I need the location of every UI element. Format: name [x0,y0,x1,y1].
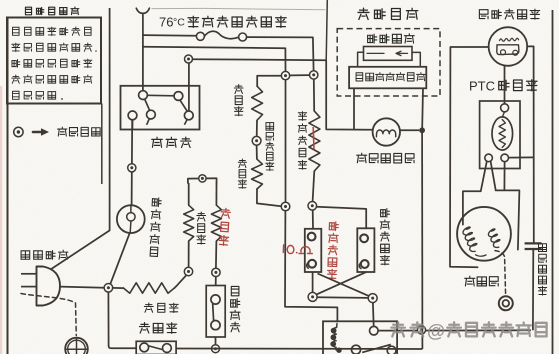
Y terminal at top [136,8,149,35]
electrode bracket right [412,52,420,66]
door switch wire from fuse [142,35,144,91]
wire right protector crossover to left node [316,272,366,294]
wire overload right lead [527,46,534,242]
wire left riser [109,8,111,231]
wire left protector crossover to right node [318,274,370,297]
overload body [497,45,519,56]
left protector contact upper [308,233,316,241]
legend panel right edge [101,104,103,185]
red handwriting 化霜保护器 left [327,222,338,279]
label 加热器 between branches [197,212,206,244]
door switch terminal TL [139,91,148,100]
label 加热器 upper left [234,85,243,116]
watermark 知乎 @英杰丹丹老师 [391,320,546,341]
wire main left drop to bus [108,292,136,348]
wire A fuse-branch to left heater chain [143,47,286,72]
wire plug to junction [60,287,104,288]
wire door switch right riser [188,63,190,111]
overload bimetal squiggle [500,38,519,41]
terminal node left parallel heater bottom [184,267,192,275]
door switch contact BR tail [184,120,187,125]
start relay box [323,321,397,354]
deodorizer dashed box [337,29,440,96]
power plug body [37,267,61,306]
label 运转电容器 [538,244,546,295]
door switch contact BR [184,111,193,120]
legend crimp terminal symbol [14,127,23,136]
heater resistor horizontal 加热器 [113,275,187,293]
wire PTC lambda left [463,161,487,224]
door switch bridge bar [147,94,174,97]
red handwriting 10 ohm [283,245,312,254]
label 过载保护器 [479,9,539,19]
ceramic electrode plate [364,47,413,61]
terminal node lamp wire [128,164,136,172]
thermostat terminal left [140,343,149,352]
earth terminal symbol [65,338,89,354]
terminal node on wire330 [417,326,425,334]
drain chain resistor upper 加热器 [252,86,263,136]
interior lamp 箱内照明灯 [117,205,145,233]
relay coil junction dot [336,348,341,353]
PTC terminal bottom-left [485,154,493,162]
label 切换开关 [230,286,240,331]
door switch terminal TR [174,92,183,101]
plug prong lower [21,286,37,288]
legend arrow [33,128,49,135]
label 加热器 lower left [238,159,246,188]
defrost heater resistor 除霜加热器 [309,79,320,201]
wire plug to left riser diagonal [52,231,110,269]
warning text line4 要拔下电源插头 [12,75,92,83]
right protector curl [359,262,361,268]
right defrost protector box [357,228,374,272]
warning text line1 由于在除臭系统 [13,27,92,36]
wire door switch to lamp [131,120,134,205]
thermostat lever [149,346,163,350]
parallel heater left branch [184,183,194,267]
compressor dashed tail [495,251,506,295]
label 加热器 under resistor [144,303,178,312]
fan motor 风扇电动机 [373,118,400,145]
changeover contact lower [211,321,220,330]
wire fuse feed horizontal [143,34,197,37]
bus bottom wire [176,348,422,351]
wire HV left lead [353,88,355,129]
door switch box 门开关 [121,86,200,130]
wire PTC to capacitor [509,156,534,158]
wire to left protector [312,210,314,229]
red pen stroke on resistor [312,127,315,150]
terminal node changeover top [212,268,220,276]
left protector contact lower [308,260,316,268]
terminal node mid-left [281,202,290,211]
changeover switch wire upper [215,277,217,286]
label 76°C defrost fuse 除霜保护熔断器 [159,15,286,30]
wire PTC shelf right [496,190,520,249]
terminal node defrost heater bottom [308,202,317,211]
wire straight branch x285 [285,80,287,203]
thermostat box 温控器 [136,341,176,354]
relay lever [362,345,391,353]
fuse element 76C defrost fuse [204,31,238,38]
compressor coil left [463,227,477,252]
wire top terminal to chainA corner [257,76,281,87]
terminal node drain-chain top [281,71,289,79]
relay contact right [387,346,396,354]
wire between relay nodes [317,296,368,299]
label 门开关 [152,137,191,147]
parallel heater right branch [211,183,221,268]
door switch lever left [145,99,150,110]
PTC terminal top [501,104,509,112]
door switch contact ML [147,110,156,119]
PTC terminal bottom-right [501,154,509,162]
electrode bracket left [358,52,364,67]
compressor coil right [488,229,500,248]
left edge pink strip [0,86,2,354]
wire right node into relay box [372,303,375,327]
junction terminal plug node [104,284,113,293]
wire overload left lead [450,47,489,267]
high voltage generator box [349,67,426,89]
compressor coil link [476,255,487,256]
compressor circle 压缩机 [457,207,511,261]
wire mid terminal to right protector [317,207,367,229]
changeover lever [212,304,215,321]
compressor service terminal [499,296,513,310]
changeover contact upper [211,295,220,304]
door switch terminal BL [128,111,137,120]
wire HV right lead [421,88,424,128]
wire3 door-switch to fan [193,59,373,130]
label 风扇电动机 [357,153,414,163]
wire left protector to relay terminal [312,272,314,292]
drain chain resistor lower 加热器 [252,145,282,206]
door switch lever right [180,100,187,111]
parallel heater top bar [188,178,217,183]
wire x285 down to relay feed [285,211,337,321]
label PTC起动器 [469,79,537,94]
wire fan to junction [400,129,419,131]
label 压缩机 [465,276,499,286]
PTC wire top [504,66,506,104]
terminal node relay left [308,292,317,301]
run capacitor bottom lead [532,249,534,330]
wire top border drop [326,0,327,60]
terminal node parallel heater top [199,175,206,182]
thermostat terminal right [163,344,172,353]
wire PTC lambda right [491,161,496,190]
legend label 压接端子 [58,127,101,136]
left border frame line [7,17,9,354]
label 排水加热器 [266,123,274,171]
plug prong upper [21,273,37,275]
warning text line5 防止触电 [13,91,63,100]
wire PTC right down [503,162,505,191]
warning note box [7,18,101,104]
changeover switch box 切换开关 [206,286,225,338]
door switch contact ML tail [147,119,150,125]
overload protector circle [489,27,528,66]
terminal node defrost-heater top [310,71,318,79]
label 温控器 [139,323,176,334]
wire fuse to right corner [247,37,314,71]
left protector curl [307,262,309,268]
plug earth dashed wire [21,294,76,336]
right protector contact upper [360,234,368,242]
label 化霜保护器 right [380,209,390,265]
junction dot fan output [419,127,425,133]
relay coil [330,324,337,350]
fuse terminal left [196,32,204,40]
red handwriting 加热器 [219,208,231,246]
warning text line3 故在修理时一定 [12,59,92,67]
changeover wire lower [215,337,217,345]
terminal node changeover bottom [212,345,220,353]
warning title 注意高电压 [25,7,78,15]
terminal node door-switch feed [185,55,193,63]
terminal node relay right [368,294,377,303]
warning text line2 中有高电压部份 [12,43,97,52]
right protector contact lower [361,260,369,268]
relay terminal inside [370,326,379,335]
left defrost protector box [305,229,322,272]
run capacitor plates [525,243,542,249]
wire relay to capacitor branch [378,329,531,331]
wire lamp to plug junction [110,233,130,284]
relay contact [352,345,361,354]
fuse terminal right [239,33,247,41]
wire between top terminals [290,74,310,76]
terminal node drain chain middle [252,136,261,145]
PTC starter box [480,101,520,169]
label 箱内照明灯 [149,198,162,257]
top border wire segment [152,8,325,9]
PTC pill [492,112,513,150]
label 除霜加热器 [298,112,307,170]
right border frame line [552,10,554,354]
wire fan junction down to bus [421,133,423,349]
label 电源插头 [21,250,68,259]
label 脱臭装置 [358,8,418,19]
label 陶瓷电极 [368,34,415,43]
label 高电压发生装置 [356,73,425,81]
